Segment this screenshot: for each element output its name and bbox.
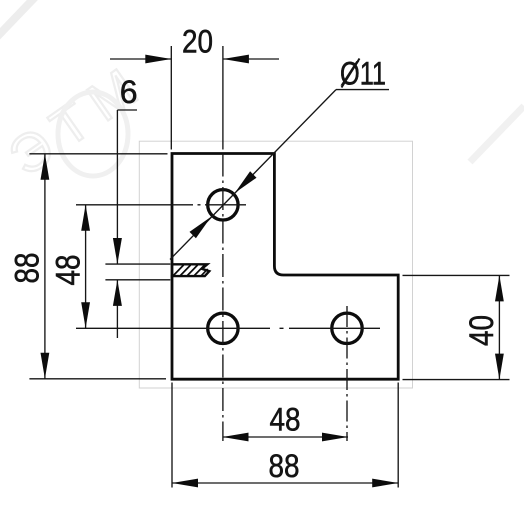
- svg-text:6: 6: [120, 74, 138, 110]
- hole H1 top: [208, 190, 238, 220]
- dimension 88 left: [29, 154, 167, 379]
- svg-text:40: 40: [463, 315, 501, 346]
- dimension 6 slot width: [105, 110, 170, 338]
- slot hatch: [174, 265, 208, 275]
- svg-text:20: 20: [182, 24, 213, 60]
- hole H3 bottom-right: [332, 313, 362, 343]
- hole H2 bottom-left: [208, 313, 238, 343]
- watermark stroke top-right: [470, 106, 524, 162]
- centerline horizontal bottom holes + 48 bottom extension: [76, 327, 380, 329]
- svg-text:88: 88: [269, 448, 300, 484]
- watermark circle: [58, 92, 128, 176]
- stock frame gray box: [139, 141, 412, 388]
- svg-text:48: 48: [270, 402, 301, 438]
- leader Ø11: [170, 90, 389, 260]
- watermark corner stroke top-left: [0, 0, 40, 40]
- svg-text:48: 48: [50, 255, 88, 286]
- centerline horizontal top hole + 48 top extension: [76, 204, 246, 206]
- dimension 48 bottom: [223, 436, 349, 438]
- svg-text:Ø11: Ø11: [340, 56, 386, 92]
- centerline vertical right hole: [346, 306, 348, 441]
- centerline vertical left holes: [222, 154, 224, 442]
- svg-text:88: 88: [9, 253, 47, 284]
- dimension 20 top: [110, 46, 279, 150]
- dimension 88 bottom: [172, 383, 398, 488]
- dimension 40 right: [403, 275, 510, 379]
- slot section outline: [171, 264, 210, 276]
- dimension 48 left: [85, 205, 87, 328]
- part outline: [172, 154, 398, 380]
